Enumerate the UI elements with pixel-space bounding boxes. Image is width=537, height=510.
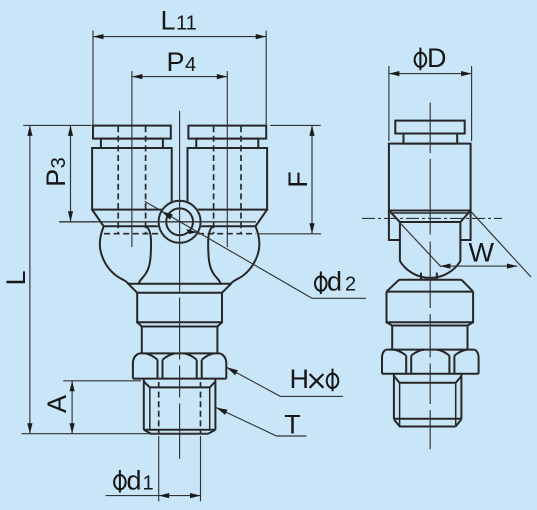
svg-text:T: T [284, 409, 301, 439]
svg-text:A: A [42, 395, 72, 413]
svg-text:L: L [1, 270, 31, 285]
svg-text:H: H [290, 364, 310, 394]
svg-text:F: F [283, 171, 313, 188]
svg-text:W: W [469, 238, 495, 268]
svg-text:D: D [427, 43, 447, 73]
